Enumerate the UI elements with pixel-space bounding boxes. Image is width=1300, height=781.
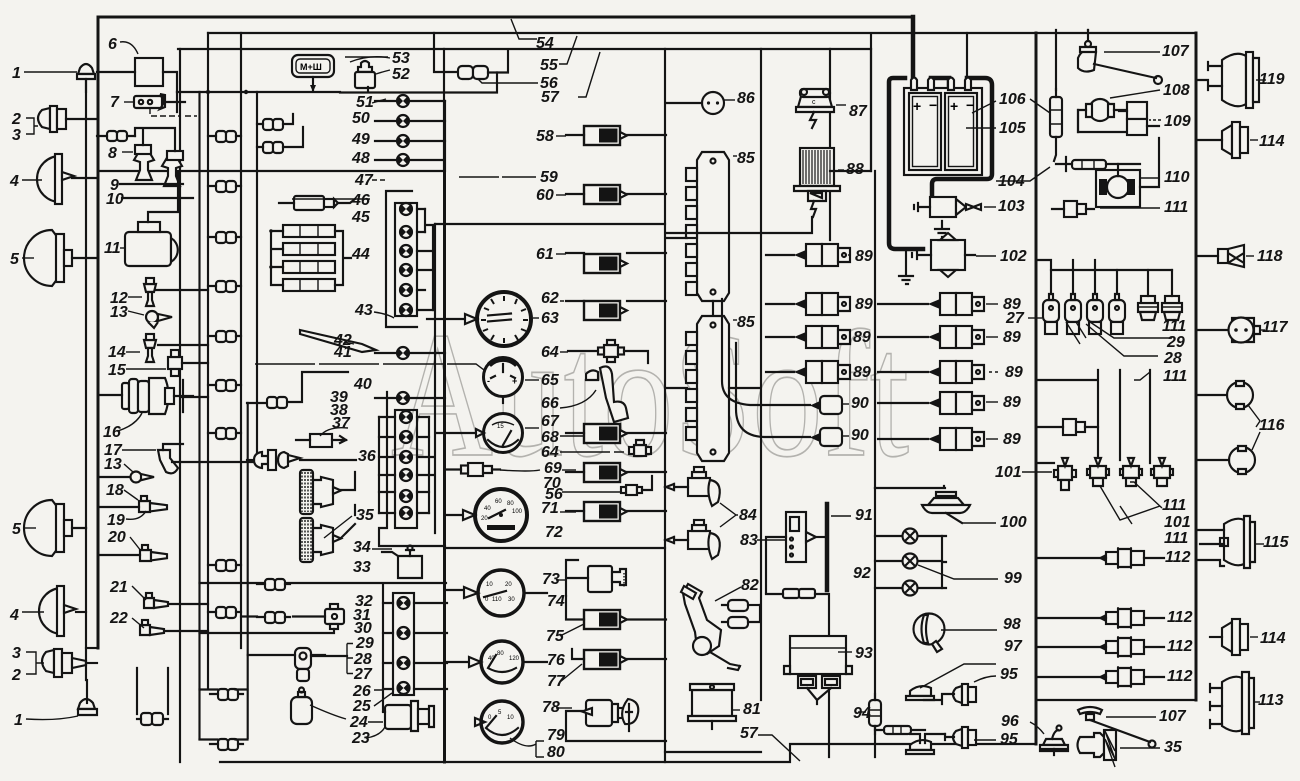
bracket labels 27-29 [347,644,353,674]
svg-text:20: 20 [107,529,126,546]
wire to 34 [247,372,348,403]
svg-text:6: 6 [108,36,117,53]
connector strip 85b [686,316,737,461]
svg-text:20: 20 [505,582,512,588]
svg-text:73: 73 [542,571,560,588]
canister 25 [248,648,325,681]
motor 110 [1096,138,1160,207]
connector 111a [1052,201,1160,217]
dome lamp 100 [875,486,996,523]
wire sensors to bus [156,290,257,631]
horn 2 top [38,106,97,132]
svg-text:48: 48 [351,150,370,167]
wire lamp bus feeds [177,87,368,92]
fuse 58 [584,126,627,145]
starter relay 103 [914,197,996,237]
svg-text:112: 112 [1167,609,1193,626]
gauge 67 fuel [436,414,523,453]
switch 84b [666,520,720,559]
battery 105 [889,78,996,250]
svg-text:13: 13 [110,304,128,321]
sensor 31 [241,604,344,629]
svg-text:89: 89 [855,248,873,265]
svg-text:118: 118 [1257,248,1283,265]
connector on wire y583 [257,579,290,590]
connector 56 on bus [434,33,538,83]
svg-text:64: 64 [541,344,559,361]
svg-text:37: 37 [332,415,351,432]
connector on wire 8 [97,131,135,141]
starter 102 [899,233,996,284]
gauge 76 [447,641,547,683]
horn 4 bottom [39,586,86,636]
horn 2 bottom [42,649,97,677]
relay 52 [355,61,390,88]
wire gauge79 bottom [510,738,544,757]
wire label5 [22,257,34,259]
bell 1 bottom [78,680,97,715]
wire battery top bus links [830,35,871,171]
svg-text:74: 74 [547,593,565,610]
lamp 40 single [397,392,409,404]
wire bus rail A [207,33,209,689]
wire 108-109 loop [1078,110,1126,132]
wire center divider low [443,171,446,762]
connector on 94 wire [766,589,829,757]
svg-text:108: 108 [1163,82,1190,99]
connector 36-wire [267,397,287,408]
wire gauge panel frame [434,224,436,533]
svg-text:86: 86 [737,90,755,107]
svg-text:77: 77 [547,673,566,690]
wire divider y583 [200,582,447,584]
connector pair x12 on bus A [208,131,241,142]
fuse 104 [996,157,1118,181]
svg-text:111: 111 [1162,318,1186,335]
bell 1 top [77,64,95,92]
wire top bus 1 [98,16,913,19]
radio 83 [786,512,826,562]
spark plugs row 27-28 (pin type) [1043,270,1059,334]
svg-text:+: + [512,376,517,386]
svg-text:20: 20 [481,516,488,522]
wire inner frame 2 [198,92,200,739]
lamp 49 [397,135,409,147]
sensor 12 [128,278,156,306]
spark plug 69 [447,463,540,476]
wire bottom border [220,744,1036,762]
svg-text:2: 2 [11,111,21,128]
sensor 21 [132,586,168,608]
svg-text:76: 76 [547,652,565,669]
horn 4 top [37,154,97,204]
connector on wire y617 [257,612,290,623]
wire 65 dash pointer [255,364,484,370]
wire bus rail C [248,92,257,738]
wire strip2 frame [379,392,445,546]
gauge 63 tachometer [427,292,531,346]
svg-text:27: 27 [1005,310,1025,327]
svg-text:13: 13 [104,456,122,473]
socket 86 [666,92,735,114]
fuse 106 [1030,89,1062,161]
connector 89 a2 [766,293,850,315]
wire label4 [22,179,42,181]
svg-text:89: 89 [1003,431,1021,448]
wire 8 nozzle feeds [135,128,175,151]
connector pair 82 [722,600,760,628]
resistor 46 [279,196,370,210]
svg-text:51: 51 [356,94,374,111]
wire 111/101/111 leaders [1100,482,1162,524]
hex plugs 111 pair [1138,270,1158,320]
svg-text:5: 5 [10,251,20,268]
svg-text:62: 62 [541,290,559,307]
key switch 66 [560,366,628,422]
relay 81 [688,684,740,729]
lamp column 26-32 [383,593,447,695]
horn 114b [1210,619,1258,655]
wire left margin riser [85,80,87,528]
connector 112-1 [1036,547,1164,569]
resistor 88 [666,148,844,233]
ring 116a [1196,381,1260,427]
wire divider y171 [98,170,444,172]
svg-text:33: 33 [353,559,371,576]
svg-text:111: 111 [1164,530,1188,547]
connector 112-3 [1036,636,1164,658]
svg-text:94: 94 [853,705,871,722]
fuse 70 [584,463,627,482]
wire 85b left/right [666,387,760,389]
wire 85a left [666,238,713,316]
svg-text:−: − [929,97,937,113]
fuse 60 [584,185,627,204]
svg-text:111: 111 [1164,199,1188,216]
washer nozzles 8 [134,145,154,180]
svg-text:29: 29 [1166,334,1185,351]
svg-text:107: 107 [1159,708,1187,725]
svg-text:103: 103 [998,198,1025,215]
svg-text:43: 43 [354,302,373,319]
svg-text:112: 112 [1165,549,1191,566]
wire middle divider [664,49,666,762]
wire left frame [97,17,100,648]
M+Sh box 53 [292,55,334,92]
box 37 [296,428,348,447]
svg-text:89: 89 [1005,364,1023,381]
svg-text:8: 8 [108,145,117,162]
svg-text:95: 95 [1000,731,1019,748]
speaker 119 [1196,52,1266,108]
motor 35c [1078,730,1161,767]
wire label1 [24,71,77,73]
svg-text:116: 116 [1259,417,1285,434]
wire top bus 3 [178,48,871,50]
svg-text:106: 106 [999,91,1026,108]
svg-text:89: 89 [1003,329,1021,346]
lamp strip 44 block [395,203,433,316]
wire label54 leader [511,19,537,39]
wire divider y550 [446,547,665,549]
speaker 5 bottom [24,500,86,556]
fuse 77 [584,650,627,669]
svg-text:58: 58 [536,128,554,145]
lamp 92-1 [875,529,942,544]
wire fuse row to panels [340,73,497,93]
svg-text:115: 115 [1263,534,1290,551]
wire lower bus [1036,370,1150,485]
wire bottom border right [1036,699,1196,701]
wire 83 leader [757,539,787,541]
svg-text:60: 60 [536,187,554,204]
svg-text:57: 57 [740,725,759,742]
gauge 65 ammeter [484,358,523,404]
resistor block rows 44 [269,225,351,291]
wire label1b [26,716,78,720]
plug 64b [560,440,651,456]
svg-text:95: 95 [1000,666,1019,683]
svg-text:112: 112 [1167,668,1193,685]
svg-text:117: 117 [1262,319,1289,336]
connector 90 a [722,299,849,414]
lamp 41-42 single [397,347,409,359]
wire left bottom riser [85,528,87,680]
svg-text:65: 65 [541,372,560,389]
svg-text:60: 60 [495,499,502,505]
relay 6 [135,58,163,86]
sensor 13 [128,311,172,328]
wire lamp51 [375,100,445,102]
wire right panel left [1035,33,1038,744]
wire 29/28 leaders [1066,322,1172,380]
svg-text:47: 47 [354,172,374,189]
fuse 71 [584,502,627,521]
svg-text:88: 88 [846,161,864,178]
svg-text:28: 28 [1163,350,1182,367]
wire label57 leader [578,52,600,97]
svg-text:111: 111 [1163,368,1187,385]
svg-text:40: 40 [353,376,372,393]
svg-text:40: 40 [484,506,491,512]
motor 108 [1078,90,1160,132]
connector 89 b4 [878,392,998,414]
svg-text:71: 71 [541,500,559,517]
svg-text:29: 29 [355,635,374,652]
svg-text:30: 30 [508,597,515,603]
gauge 79 [475,701,523,743]
pointer 42/41 [300,330,376,352]
wiper 107a [1078,30,1162,84]
svg-text:112: 112 [1167,638,1193,655]
svg-text:84: 84 [739,507,757,524]
speaker 5 top [24,230,97,286]
wire 47 dashes [372,179,386,181]
valve 36 [247,450,356,470]
heater motor 35b [300,518,341,562]
sensor 19 [0,0,1,1]
svg-text:96: 96 [1001,713,1019,730]
svg-text:110: 110 [1164,169,1190,186]
svg-text:89: 89 [1003,394,1021,411]
wire 84 leaders [720,503,738,527]
lamp 50 [397,115,409,127]
fuse bottom [875,726,925,734]
svg-text:61: 61 [536,246,554,263]
svg-text:82: 82 [741,577,759,594]
wire 59 long [459,176,536,178]
connector 89 b5 [878,428,998,450]
horn 95a [924,676,996,705]
wire bus rail B [240,33,242,648]
connector 89 b3 [878,361,998,383]
svg-text:44: 44 [351,246,370,263]
lamp 92-3 [875,581,942,596]
svg-text:90: 90 [851,427,869,444]
svg-text:89: 89 [853,329,871,346]
svg-text:67: 67 [541,413,560,430]
svg-text:110: 110 [492,597,502,603]
svg-text:15: 15 [497,424,504,430]
svg-text:100: 100 [512,509,523,515]
bottom ladder rungs [200,690,248,740]
wire labels 2,3 bracket [26,118,38,134]
jar 24 [291,688,346,725]
svg-text:53: 53 [392,50,410,67]
U loop with connector [137,668,168,725]
lamp 48 [397,154,409,166]
svg-text:87: 87 [849,103,868,120]
wire gauge panel top [435,223,665,225]
wire right panel top verticals [1056,30,1088,90]
svg-text:111: 111 [1162,497,1186,514]
horn 95b [945,727,996,748]
svg-text:+: + [950,98,958,114]
wire 10 [122,197,193,199]
svg-text:5: 5 [12,521,22,538]
svg-text:15: 15 [108,362,127,379]
sensors 19/20 [126,511,146,519]
svg-text:109: 109 [1164,113,1191,130]
ring 116b [1196,432,1260,474]
box 34 [372,546,422,579]
relay 87 [796,89,846,128]
svg-text:10: 10 [507,715,514,721]
svg-text:2: 2 [11,667,21,684]
svg-text:35: 35 [356,507,375,524]
fuse 75 [584,610,627,629]
svg-text:54: 54 [536,35,554,52]
svg-text:80: 80 [507,501,514,507]
lamp strip 33-39 block [379,410,433,528]
fuse 68 [584,424,627,443]
fuse 94 [858,694,881,734]
relay 109 [1119,102,1161,135]
wire strip frame [386,191,433,327]
svg-text:10: 10 [106,191,124,208]
wire label8 [122,151,133,153]
speaker 113 [1210,672,1260,734]
svg-text:16: 16 [103,424,121,441]
connector 89 a1 [766,244,850,266]
svg-text:35: 35 [1164,739,1183,756]
svg-text:40: 40 [488,656,495,662]
connector 89 a4 [766,361,850,383]
svg-text:55: 55 [540,57,559,74]
svg-text:64: 64 [541,444,559,461]
heater motor 35a [300,470,341,514]
connector 112-2 [1036,607,1164,629]
svg-text:14: 14 [108,344,126,361]
svg-text:36: 36 [358,448,376,465]
svg-text:102: 102 [1000,248,1027,265]
wire 53 leader [350,57,390,62]
wire right panel right [1195,33,1198,700]
svg-text:49: 49 [351,131,370,148]
svg-text:83: 83 [740,532,758,549]
svg-text:41: 41 [333,344,352,361]
wire 99 leader [918,565,998,579]
svg-text:66: 66 [541,395,559,412]
svg-text:с: с [812,99,816,106]
connector 111b [1036,419,1098,435]
svg-text:50: 50 [352,110,370,127]
svg-text:100: 100 [1000,514,1027,531]
svg-text:4: 4 [9,607,19,624]
wire 7 to bus [165,92,185,112]
svg-text:1: 1 [14,712,23,729]
svg-text:89: 89 [853,364,871,381]
svg-text:104: 104 [998,173,1025,190]
svg-text:107: 107 [1162,43,1190,60]
sensor 17 [122,444,183,473]
switch 78 [556,699,666,741]
plug 101b row [1087,458,1173,486]
svg-text:120: 120 [509,656,520,662]
connector strip 85a [686,152,737,301]
wire inner left frame [179,49,181,762]
svg-text:114: 114 [1259,133,1285,150]
svg-text:75: 75 [546,628,565,645]
wire center divider [443,49,445,171]
switch 96 [1030,722,1068,755]
fog 97a [906,664,996,700]
valve 118 [1196,245,1254,267]
fuse 62/63 [584,301,627,320]
sensor 22 [132,618,164,635]
wire col x875 [871,49,875,757]
wire 53 leader long [345,56,388,58]
wire battery feed left [911,17,916,78]
svg-text:23: 23 [351,730,370,747]
svg-text:46: 46 [351,192,370,209]
wire label55 leader [559,36,577,64]
svg-text:18: 18 [106,482,124,499]
connector 89 b1 [878,293,998,315]
svg-text:7: 7 [110,94,120,111]
wire 31 bottom return [200,629,335,633]
plug 64a [598,340,624,362]
svg-text:81: 81 [743,701,761,718]
connector 89 b2 [878,326,998,348]
svg-text:79: 79 [547,727,565,744]
connector 89 a3 [766,326,850,348]
svg-text:97: 97 [1004,638,1023,655]
connector pair mid [257,114,293,130]
svg-text:92: 92 [853,565,871,582]
headlight 98 [914,614,998,653]
fog 97b [906,734,945,754]
